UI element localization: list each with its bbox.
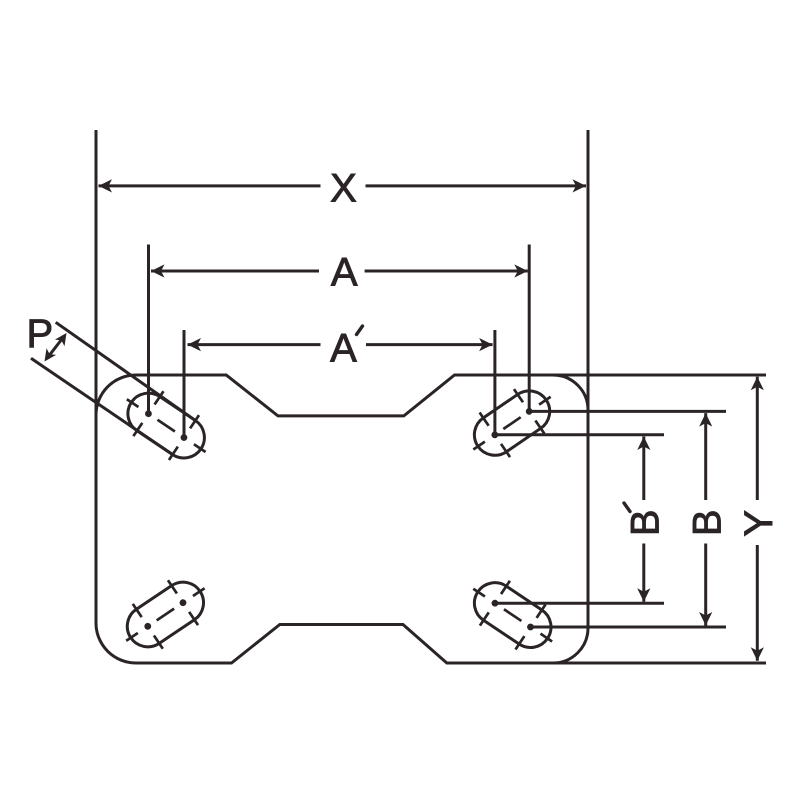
slotted hole BL (111, 566, 219, 663)
B' bottom extension line from BR inner hole center (495, 602, 664, 605)
B top extension line from TR outer hole center (529, 410, 726, 413)
plate top-left corner arc (96, 375, 136, 415)
B' dimension line x=643.8 (642, 437, 645, 501)
A dimension line at y=271 (151, 270, 319, 273)
svg-text:X: X (330, 167, 357, 211)
A' right arrowhead (479, 338, 493, 351)
svg-text:P: P (27, 312, 54, 356)
P slot-width projection line lower (31, 358, 173, 454)
B' top extension line from TR inner hole center (495, 433, 664, 436)
A extension line left (x=148.5) (147, 245, 150, 414)
svg-text:Y: Y (737, 510, 781, 537)
P slot-width projection line upper (56, 322, 196, 420)
B' top arrowhead (637, 437, 650, 451)
B' bottom arrowhead (637, 588, 650, 602)
A' extension line right (x=494.9) (493, 330, 496, 435)
slotted hole TL (112, 377, 221, 475)
A' dimension line at y=345.5 (188, 343, 321, 346)
svg-text:B: B (685, 509, 729, 536)
Y bottom arrowhead (751, 647, 764, 661)
B bottom arrowhead (699, 612, 712, 626)
X right arrowhead (573, 179, 587, 192)
B top arrowhead (699, 413, 712, 427)
Y top arrowhead (751, 377, 764, 391)
X dimension line at y=185.9 with label gap (99, 184, 321, 187)
svg-text:A: A (330, 327, 357, 371)
A left arrowhead (151, 264, 165, 277)
B dimension line x=705.7 (704, 413, 707, 500)
slotted hole BR (458, 566, 567, 664)
plate top-right corner arc (553, 375, 588, 410)
Y dimension line x=757.3 (756, 377, 759, 500)
B bottom extension line from BR outer hole center (531, 626, 727, 629)
X left arrowhead (99, 179, 113, 192)
A right arrowhead (514, 264, 528, 277)
plate outline: right edge and bottom-right corner (553, 130, 588, 663)
svg-text:B: B (623, 509, 667, 536)
plate outline: left edge, bottom-left corner, bottom edge with notch, Y bottom extension (96, 130, 766, 663)
A' extension line left (x=184) (183, 330, 186, 438)
P double-headed arrow (48, 337, 64, 358)
A' left arrowhead (188, 338, 202, 351)
plate top edge with notch, extended right as Y top extension line (136, 375, 766, 416)
A extension line right (x=529.2) (528, 245, 531, 412)
svg-text:A: A (331, 251, 358, 295)
slotted hole TR (458, 374, 566, 471)
